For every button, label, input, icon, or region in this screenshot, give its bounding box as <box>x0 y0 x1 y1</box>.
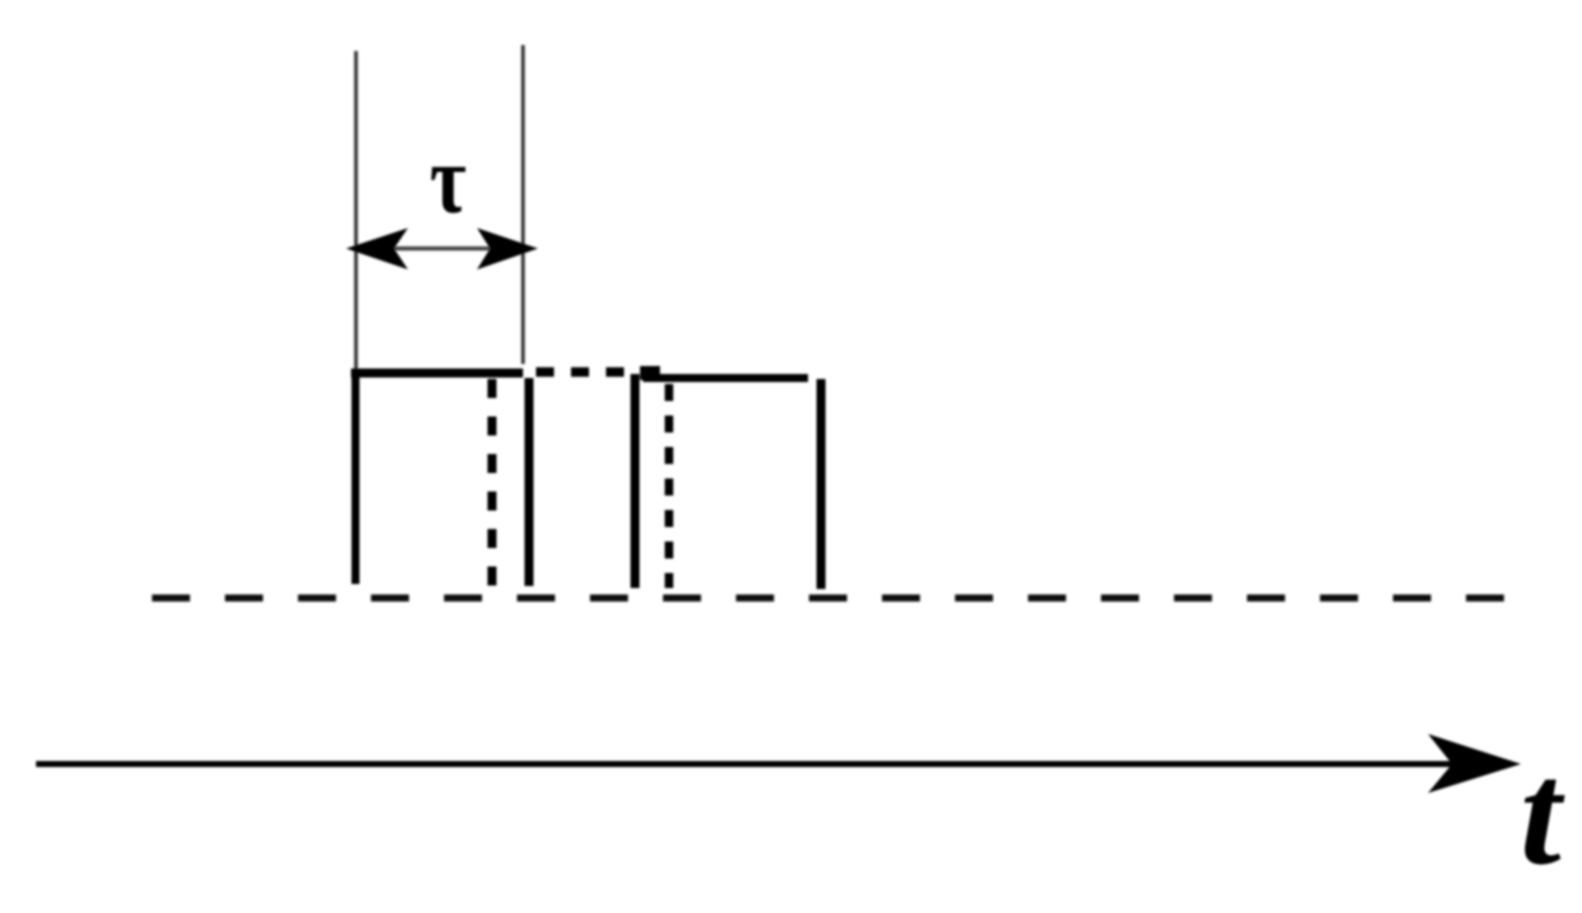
pulse 1 rising edge (solid) <box>352 371 360 584</box>
dimension arrow left head <box>346 228 408 270</box>
svg-text:t: t <box>1520 732 1565 896</box>
pulse 2 rising edge (solid) <box>631 374 640 588</box>
time axis line <box>36 761 1462 767</box>
svg-text:τ: τ <box>430 126 467 234</box>
delayed pulse top edge (dotted) <box>536 367 659 377</box>
dimension arrow right head <box>477 228 538 270</box>
pulse 1 top edge (solid) <box>351 369 523 378</box>
marker line left (tau extent, left) <box>354 51 358 373</box>
pulse 1 delayed rising edge (dotted) <box>488 379 497 588</box>
pulse 2 delayed rising edge (dotted) <box>665 384 674 588</box>
dimension arrow shaft <box>370 246 515 250</box>
marker line right (tau extent, right) <box>521 45 525 364</box>
pulse 1 falling edge (solid) <box>525 378 534 586</box>
pulse 2 top edge (solid) <box>643 374 808 382</box>
time axis arrowhead <box>1428 734 1521 793</box>
pulse 2 corner blob <box>640 366 660 380</box>
baseline (dashed zero level) <box>152 595 1504 602</box>
pulse 2 falling edge (solid) <box>817 379 826 589</box>
